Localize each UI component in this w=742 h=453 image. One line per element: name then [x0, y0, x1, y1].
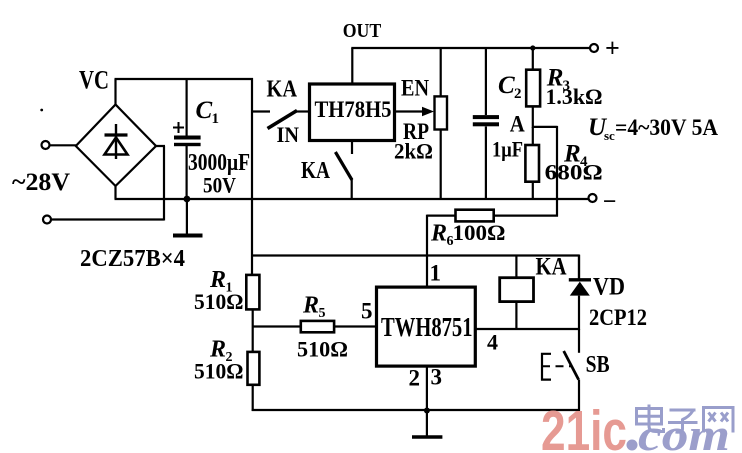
pin label 5: [361, 299, 373, 324]
label R2: [209, 337, 233, 366]
IC U2 TWH8751: [377, 287, 476, 366]
wire bridge top to top rail: [114, 79, 116, 105]
svg-text:TH78H5: TH78H5: [315, 97, 392, 122]
pin label 2: [409, 366, 421, 391]
svg-text:2kΩ: 2kΩ: [394, 139, 433, 164]
resistor R1: [246, 275, 259, 352]
pushbutton SB: [541, 329, 579, 411]
svg-text:510Ω: 510Ω: [194, 359, 244, 384]
label 510Ohm R1: [194, 289, 244, 314]
wire R6 to pin1: [426, 215, 428, 288]
svg-text:VC: VC: [79, 66, 109, 95]
svg-text:C: C: [196, 97, 213, 124]
svg-text:1: 1: [212, 111, 220, 127]
label 1uF: [492, 137, 523, 162]
svg-text:2CZ57B×4: 2CZ57B×4: [80, 246, 185, 272]
junction pins ground rail: [424, 408, 430, 414]
relay coil KA: [500, 256, 534, 331]
svg-text:5: 5: [319, 306, 326, 321]
svg-text:2CP12: 2CP12: [589, 305, 647, 330]
label 2CP12: [589, 305, 647, 330]
svg-text:680Ω: 680Ω: [545, 160, 603, 185]
svg-text:5: 5: [361, 299, 373, 324]
svg-text:21ic: 21ic: [541, 399, 627, 453]
svg-text:−: −: [603, 189, 617, 215]
svg-text:KA: KA: [536, 254, 567, 281]
resistor R6: [427, 210, 558, 222]
wire pins 2 3 to ground rail: [426, 366, 428, 411]
svg-text:IN: IN: [277, 122, 300, 147]
label 100Ohm: [453, 220, 506, 245]
label 2CZ57B×4: [80, 246, 185, 272]
svg-text:sc: sc: [604, 128, 615, 143]
bridge rectifier VC diamond: [76, 105, 156, 187]
junction C1-ground rail: [184, 196, 191, 203]
resistor R3: [526, 48, 540, 128]
input terminal top: [42, 141, 50, 149]
svg-text:510Ω: 510Ω: [297, 337, 348, 362]
bridge diode symbol: [105, 124, 128, 159]
svg-text:2: 2: [514, 86, 522, 102]
label OUT: [343, 20, 382, 42]
svg-text:=4~30V 5A: =4~30V 5A: [615, 115, 718, 140]
ground 2: [412, 411, 442, 438]
potentiometer RP: [435, 48, 448, 199]
label 1.3kOhm: [546, 84, 603, 109]
input terminal bottom: [43, 216, 51, 224]
svg-text:+: +: [605, 34, 620, 63]
wire relay supply rail: [251, 255, 579, 280]
label IN: [277, 122, 300, 147]
relay contact KA bottom: [335, 142, 352, 200]
wire input bottom to bridge right vertex: [52, 146, 166, 221]
relay contact KA top: [252, 111, 310, 129]
label ~28V: [12, 169, 70, 196]
label 2kOhm: [394, 139, 433, 164]
resistor R2: [248, 352, 260, 411]
svg-text:1μF: 1μF: [492, 137, 523, 162]
svg-text:KA: KA: [301, 158, 331, 184]
label R1: [209, 267, 233, 296]
svg-text:KA: KA: [267, 77, 298, 103]
label SB: [586, 352, 610, 378]
node A wire: [533, 126, 557, 217]
svg-text:1: 1: [430, 261, 442, 286]
ground: [173, 199, 203, 236]
watermark 21ic: [541, 399, 638, 453]
pin label 3: [431, 365, 443, 390]
label 510Ohm R5: [297, 337, 348, 362]
svg-text:C: C: [498, 72, 515, 99]
wire lower ground rail: [252, 409, 580, 411]
wire pin4: [475, 328, 580, 330]
label EN: [401, 76, 429, 101]
resistor R5: [252, 321, 377, 332]
svg-text:VD: VD: [593, 274, 625, 301]
output terminal minus: [589, 189, 617, 215]
svg-text:510Ω: 510Ω: [194, 289, 244, 314]
label VD: [593, 274, 625, 301]
svg-text:R: R: [430, 221, 447, 247]
watermark com: [638, 409, 730, 453]
label VC: [79, 66, 109, 95]
wire top rail: [115, 78, 254, 80]
label C2: [498, 72, 522, 102]
svg-text:1.3kΩ: 1.3kΩ: [546, 84, 603, 109]
svg-text:~28V: ~28V: [12, 169, 70, 196]
wire ground rail: [115, 198, 590, 200]
label 680Ohm: [545, 160, 603, 185]
label R3: [546, 65, 570, 95]
pin label 4: [487, 330, 498, 355]
svg-text:EN: EN: [401, 76, 429, 101]
label Usc: [588, 114, 718, 143]
label KA top: [267, 77, 298, 103]
wire EN with arrow: [395, 107, 435, 116]
label RP: [403, 119, 429, 144]
svg-text:50V: 50V: [203, 173, 236, 198]
tiny speck: [40, 109, 43, 112]
junction R3 top rail: [530, 45, 535, 50]
label KA bottom: [301, 158, 331, 184]
label 3000uF: [188, 150, 250, 176]
svg-text:3: 3: [431, 365, 443, 390]
label R5: [302, 293, 326, 322]
svg-text:TWH8751: TWH8751: [381, 312, 473, 342]
wire OUT pin to rail: [351, 48, 353, 84]
svg-text:4: 4: [487, 330, 498, 355]
label R4: [563, 141, 588, 171]
wire unregulated feed down: [251, 78, 253, 275]
svg-text:100Ω: 100Ω: [453, 220, 506, 245]
wire input top to bridge: [50, 144, 76, 146]
wire bridge bottom to ground rail: [114, 185, 116, 199]
label R6: [430, 221, 454, 250]
node A label: [510, 112, 525, 137]
svg-text:OUT: OUT: [343, 20, 382, 42]
label C1: [196, 97, 220, 127]
label KA coil: [536, 254, 567, 281]
capacitor C1: [173, 79, 201, 199]
pin label 1: [430, 261, 442, 286]
svg-text:A: A: [510, 112, 525, 137]
diode VD 2CP12: [569, 255, 591, 330]
wire output plus rail: [351, 47, 590, 49]
svg-text:SB: SB: [586, 352, 610, 378]
output terminal plus: [590, 34, 620, 63]
resistor R4: [525, 127, 539, 199]
capacitor C2: [473, 48, 499, 199]
watermark dianziwang: [637, 405, 734, 433]
regulator U1 TH78H5: [310, 84, 395, 141]
label 50V: [203, 173, 236, 198]
svg-text:R: R: [302, 293, 319, 319]
label 510Ohm R2: [194, 359, 244, 384]
svg-text:2: 2: [409, 366, 421, 391]
